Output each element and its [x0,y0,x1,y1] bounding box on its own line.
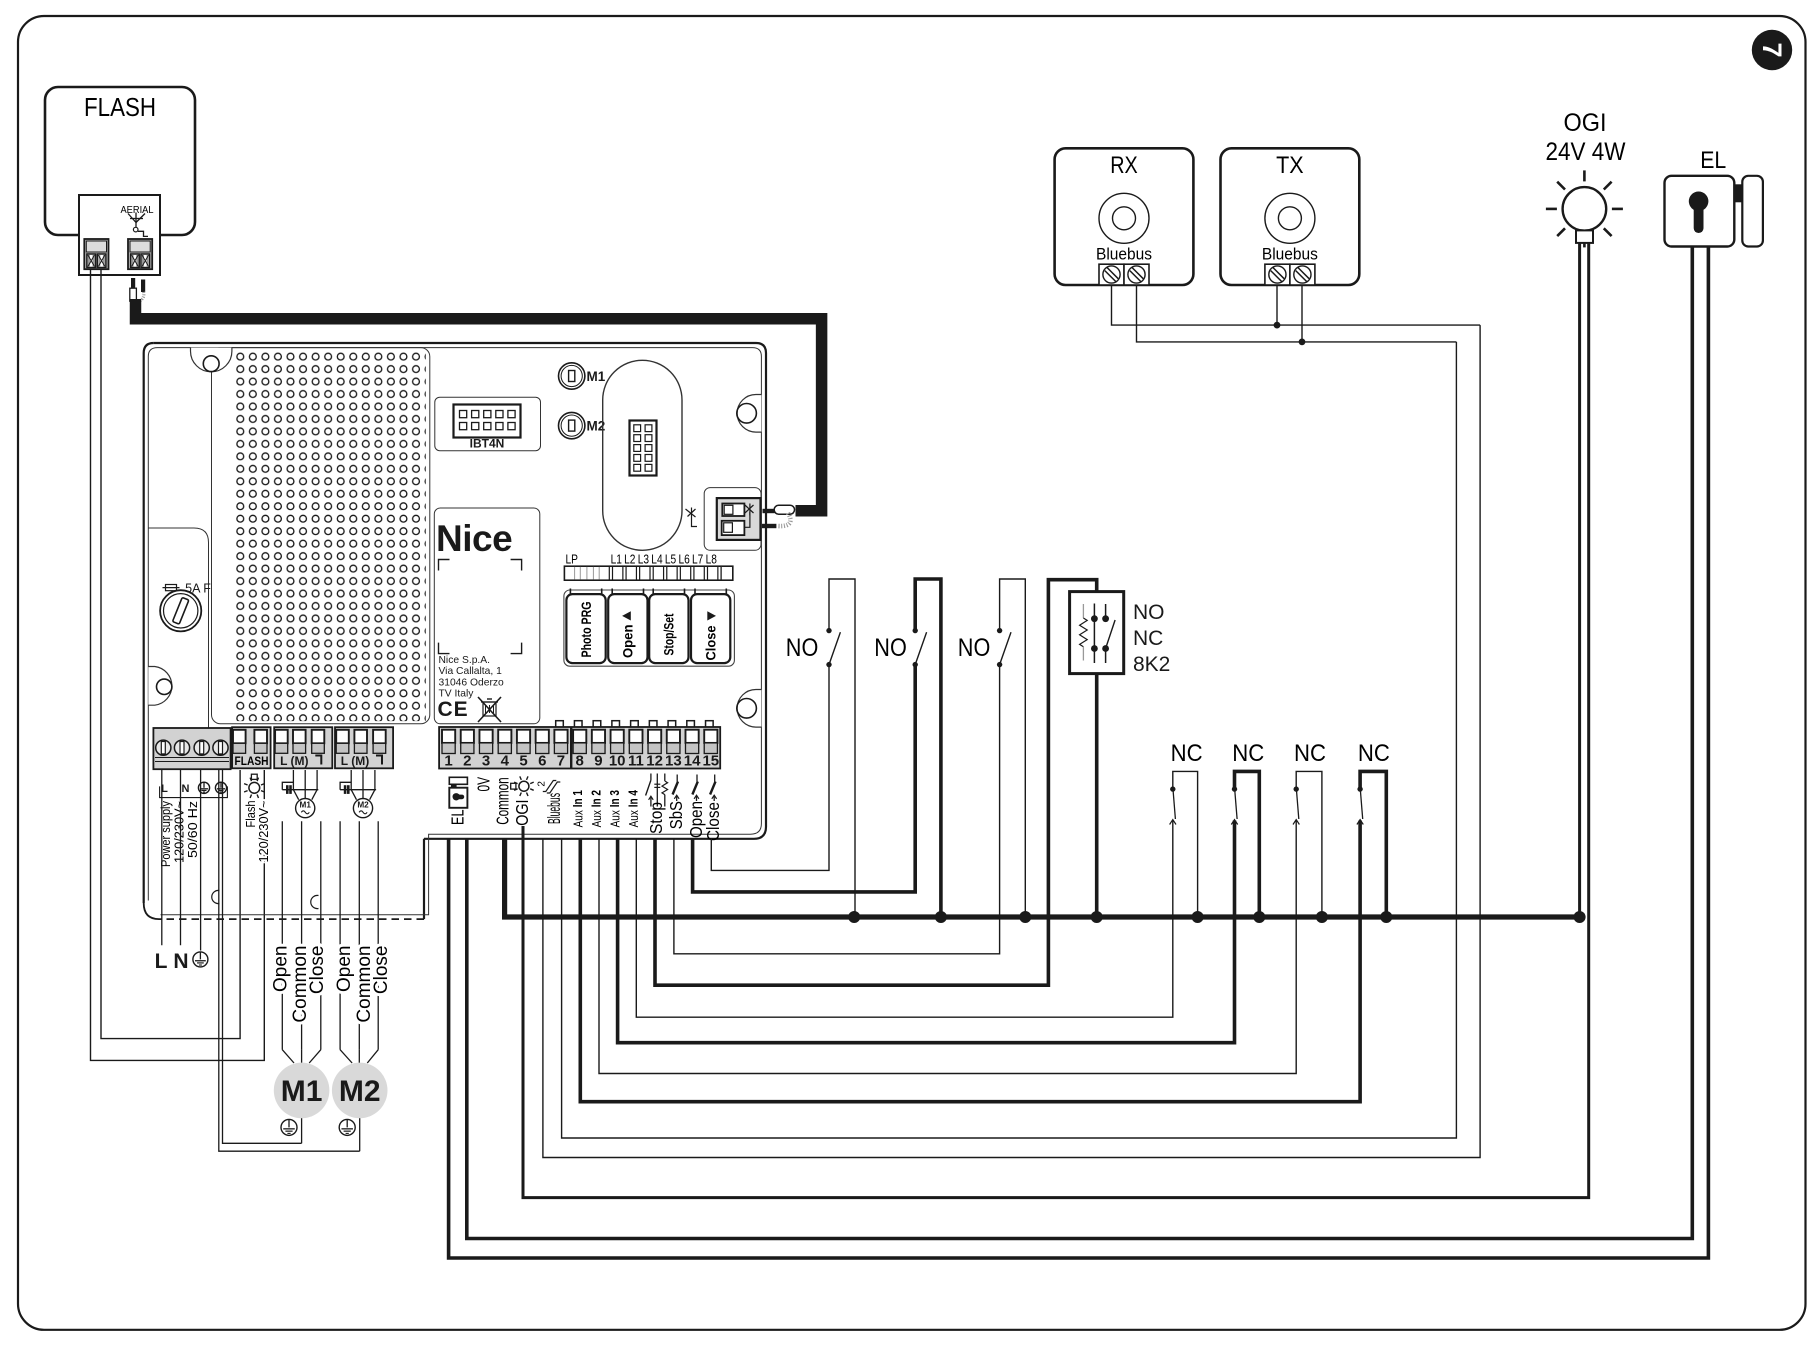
wire terminal 10 Aux In 3 to NC2 [618,821,1235,1043]
aerial cable pins [132,279,135,290]
EL strike plate [1742,176,1763,247]
svg-text:IBT4N: IBT4N [470,437,505,451]
svg-text:50/60 Hz: 50/60 Hz [186,801,200,858]
RX/TX bluebus wires [1112,285,1481,325]
M2 motor wires Open/Common/Close [339,821,341,1049]
IBT4N connector [454,405,521,438]
svg-text:Open: Open [621,625,636,659]
svg-text:M2: M2 [339,1075,381,1108]
wire PE [200,770,202,951]
svg-text:Open: Open [334,946,355,992]
svg-text:14: 14 [684,753,701,770]
svg-text:Common: Common [493,777,513,825]
Open label + icon [696,775,698,782]
svg-text:Close: Close [307,946,328,995]
cable ferrule [774,505,794,514]
svg-text:Via Callalta, 1: Via Callalta, 1 [439,666,503,677]
svg-text:Flash: Flash [244,800,258,827]
svg-text:11: 11 [628,753,644,770]
svg-text:Open: Open [270,946,291,992]
svg-text:NC: NC [1232,740,1264,767]
DIP square row [556,721,564,729]
svg-text:L8: L8 [706,553,717,567]
M1 circle bottom stub [301,1118,303,1143]
Nice label area [434,508,540,724]
svg-text:0V: 0V [473,777,493,792]
svg-text:Aux In 3: Aux In 3 [608,790,623,827]
wire flash-lamp to board FLASH terminal (outer loop) [91,269,265,1060]
svg-text:RX: RX [1110,152,1138,179]
wire terminal 4 Common to bus [505,839,1580,917]
LED indicator bar [564,566,732,580]
OGI label + lamp icon [519,781,529,791]
svg-text:4: 4 [501,753,510,770]
board inner cover outline [158,348,762,915]
svg-text:L: L [155,950,168,973]
svg-text:LP: LP [566,553,579,567]
svg-text:Aux In 2: Aux In 2 [589,790,604,827]
wire terminal 5 OGI to lamp [523,243,1589,1198]
svg-text:Stop/Set: Stop/Set [662,613,677,655]
svg-text:Aux In 4: Aux In 4 [626,789,641,827]
svg-text:L1: L1 [611,553,622,567]
photocell TX box [1221,148,1360,285]
wire L [161,770,163,945]
numbered terminal strip 1-15 [439,727,720,769]
wire terminal 7 Bluebus to RX/TX upper line [562,342,1457,1138]
motor M2 circle [332,1063,388,1119]
lamp base [1576,230,1593,243]
svg-text:24V 4W: 24V 4W [1546,138,1626,166]
M1 earth symbol [281,1119,297,1135]
wire flash-lamp to board FLASH terminal (inner loop) [101,269,240,1038]
svg-text:EL: EL [447,809,467,825]
svg-text:L3: L3 [638,553,649,567]
svg-text:12: 12 [646,753,663,770]
svg-text:Nice: Nice [436,518,512,559]
svg-text:2: 2 [463,753,471,770]
right lower screw notch and hole [737,690,761,728]
NO switch legs x=999.6 [1000,579,1026,917]
NO switch legs x=829.0 [829,579,855,917]
NC switch legs x=1360.1 [1360,771,1386,917]
cable bend (stippled wire) [778,513,790,526]
svg-text:FLASH: FLASH [235,756,269,768]
svg-text:5A F: 5A F [185,582,211,596]
FLASH lamp box [45,87,195,235]
svg-text:Aux In 1: Aux In 1 [571,790,586,827]
M2 earth symbol [339,1119,355,1135]
IBT4N area [435,397,541,451]
NC switch legs x=1234.5 [1235,771,1260,917]
svg-text:EL: EL [1700,147,1726,174]
cable pin lower [762,524,776,528]
svg-text:NO: NO [786,634,819,662]
svg-text:L2: L2 [624,553,635,567]
svg-text:9: 9 [594,753,602,770]
aerial terminal block at x=128.0 [128,239,152,269]
wire terminal 14 Open to NO switch 2 [693,666,916,892]
svg-text:N: N [173,950,188,973]
svg-text:1: 1 [444,753,452,770]
Close label + icon [714,775,716,782]
svg-text:M2: M2 [357,801,369,810]
lamp wire to bus [1578,243,1581,917]
wire terminal 6 Bluebus to RX/TX lower line [543,325,1480,1157]
bluebus junction dots [1274,322,1281,329]
NO switch legs x=915.2 [915,579,941,917]
wire terminal 1 EL to lock (outer) [449,247,1709,1259]
svg-text:120/230V~: 120/230V~ [172,801,186,863]
Bluebus label + icon [543,781,557,792]
corner crop marks [439,560,450,571]
board screw M1 [559,363,585,389]
wire N [180,770,182,945]
fuse strip area [148,528,208,768]
waste bin symbol [483,702,496,716]
left power terminal block [153,728,230,769]
svg-text:31046 Oderzo: 31046 Oderzo [439,677,505,688]
photocell RX box [1055,148,1194,285]
button Stop/Set [649,594,688,663]
wire terminal 12 Stop to 8K2 top [655,580,1097,986]
motor symbol with capacitor [350,770,352,790]
NC switch legs x=1296.2 [1296,771,1322,917]
SbS label + icon [676,775,678,782]
8K2 resistor [1082,604,1084,618]
svg-text:13: 13 [665,753,682,770]
8K2 NO contact [1105,604,1107,619]
svg-text:Bluebus: Bluebus [544,793,564,824]
wire terminal 15 Close to NO switch 1 [711,666,829,870]
M1 motor terminal block L (M) [274,727,332,768]
svg-text:L7: L7 [692,553,703,567]
svg-text:L (M): L (M) [280,754,308,768]
svg-text:7: 7 [1757,42,1787,57]
svg-text:5: 5 [519,753,527,770]
svg-text:OGI: OGI [1564,109,1607,137]
perforated panel area [212,348,430,724]
svg-text:7: 7 [557,753,565,770]
svg-text:Photo PRG: Photo PRG [579,602,594,658]
OGI lamp symbol [1612,208,1623,211]
svg-text:N: N [182,783,190,795]
svg-text:Close: Close [371,946,392,995]
svg-text:M1: M1 [281,1075,323,1108]
svg-text:L5: L5 [665,553,676,567]
svg-text:10: 10 [609,753,626,770]
svg-text:Power supply: Power supply [159,800,173,867]
svg-text:Bluebus: Bluebus [1262,245,1318,264]
wire terminal 2 EL to lock (inner) [467,247,1693,1239]
control board outer outline [154,343,766,839]
flash lamp icon [249,782,260,793]
EL label icon (lock) [449,777,467,784]
board screw M2 [559,412,585,438]
svg-text:NO: NO [958,634,991,662]
svg-text:8K2: 8K2 [1133,653,1170,676]
AERIAL terminal box [79,195,160,275]
EL keyhole [1689,192,1709,212]
svg-text:Stop: Stop [646,802,666,834]
EL lock body [1665,176,1735,247]
centre oval island [603,360,682,550]
svg-text:NC: NC [1358,740,1390,767]
M1 motor wires Open/Common/Close [281,821,283,1049]
top screw notch and hole [191,348,232,372]
svg-text:NC: NC [1294,740,1326,767]
aerial antenna symbol [128,214,136,223]
button panel [564,590,735,666]
radio connector area [704,488,761,551]
svg-text:FLASH: FLASH [84,92,156,122]
button Photo PRG [566,594,605,663]
svg-text:Close: Close [703,802,723,841]
svg-text:NC: NC [1171,740,1203,767]
svg-text:8: 8 [576,753,584,770]
svg-text:TX: TX [1276,152,1304,179]
FLASH terminal block [232,727,271,768]
svg-text:NO: NO [874,634,907,662]
EL latch block [1734,185,1742,202]
right upper screw notch and hole [737,395,761,433]
wire PE to M2 earth [219,770,360,1151]
8K2 resistor/contact box [1070,592,1124,674]
svg-text:AERIAL: AERIAL [121,204,154,216]
button Close [691,594,730,663]
fuse holder [160,590,201,631]
wire terminal 11 Aux In 4 to NC1 [636,821,1173,1018]
svg-text:Close: Close [704,625,719,660]
cable grommet C marks [212,890,220,903]
bus junction dots [848,911,860,923]
svg-text:L4: L4 [651,553,662,567]
svg-text:NC: NC [1133,627,1163,650]
aerial terminal block at x=84.3 [84,239,108,269]
svg-text:Nice S.p.A.: Nice S.p.A. [439,655,491,666]
left screw notch and hole [148,667,172,706]
svg-text:6: 6 [538,753,546,770]
svg-text:120/230V~: 120/230V~ [257,801,271,863]
connector antenna glyph [749,504,751,516]
motor M1 circle [274,1063,330,1119]
thick aerial coax cable to radio connector [136,299,822,511]
svg-text:L6: L6 [678,553,689,567]
wire terminal 9 Aux In 2 to NC3 [599,821,1296,1074]
svg-text:15: 15 [702,753,719,770]
fuse label 5A F [166,585,177,591]
wire PE to M1 earth [223,770,302,1143]
svg-text:CE: CE [438,698,469,721]
motor symbol with capacitor [292,770,294,790]
svg-text:3: 3 [482,753,490,770]
board antenna glyph [691,508,693,521]
page number 7 badge [1752,30,1792,70]
10-pin connector [630,421,657,476]
svg-text:M1: M1 [300,801,312,810]
button Open [608,594,647,663]
wire terminal 8 Aux In 1 to NC4 [580,821,1360,1102]
wire terminal 13 SbS to NO switch 3 [674,666,1000,954]
svg-text:2: 2 [536,781,547,787]
M2 circle bottom stub [359,1118,361,1151]
svg-text:SbS: SbS [666,801,686,829]
board bottom dashed edge [159,918,424,920]
svg-text:L (M): L (M) [341,754,369,768]
svg-text:NO: NO [1133,601,1165,624]
svg-text:M1: M1 [587,369,606,384]
cable pin upper [763,509,774,513]
wire 8K2 bottom to bus [1095,674,1099,917]
svg-text:Bluebus: Bluebus [1096,245,1152,264]
Stop label + icon [650,774,652,781]
8K2 NC contact [1093,604,1095,619]
svg-text:OGI: OGI [512,800,532,826]
NC switch legs x=1172.8 [1173,771,1198,917]
M2 motor terminal block L (M) [335,727,393,768]
radio aerial connector [717,498,761,540]
